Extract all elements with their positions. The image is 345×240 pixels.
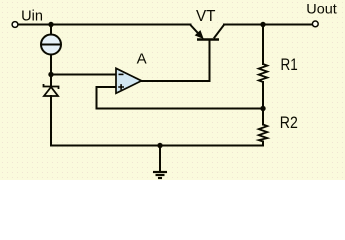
op-amp U1 A [116, 68, 142, 93]
node: divider tap junction [260, 106, 265, 111]
svg-text:R2: R2 [280, 113, 298, 132]
wire: top rail from transistor collector to Uout terminal [224, 24, 312, 26]
node: output junction [260, 22, 265, 27]
wire: bottom ground rail [51, 145, 263, 147]
node: input junction [48, 22, 53, 27]
svg-text:A: A [137, 51, 147, 68]
resistor R2 [259, 125, 268, 142]
current source I [41, 35, 61, 55]
terminal Uin [12, 22, 18, 28]
svg-text:Uin: Uin [21, 8, 43, 24]
wire: feedback loop from op-amp + input to divider tap [97, 87, 264, 109]
terminal Uout [312, 21, 318, 27]
wire: current source top stem [50, 25, 52, 35]
wire: zener anode down to bottom rail [50, 96, 52, 146]
svg-text:R1: R1 [281, 55, 298, 74]
wire: R2 bottom to rail [262, 142, 264, 146]
svg-text:Uout: Uout [306, 0, 337, 16]
wire: Uin terminal to transistor emitter [18, 24, 191, 26]
node: ground junction [157, 143, 162, 148]
zener diode VD [44, 84, 59, 96]
wire: R1 top branch [262, 25, 264, 65]
ground [153, 146, 167, 179]
node: reference junction [48, 72, 53, 77]
resistor R1 [259, 64, 268, 82]
svg-text:VT: VT [196, 8, 216, 25]
wire: R1 bottom to divider tap [262, 82, 264, 125]
wire: op-amp output to transistor base [142, 41, 210, 82]
transistor VT [191, 25, 225, 46]
wire: current source bottom stem down to zener [50, 55, 52, 87]
wire: op-amp inverting input from reference node [51, 74, 116, 76]
